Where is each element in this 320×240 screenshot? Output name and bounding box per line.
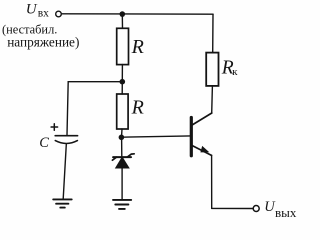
svg-text:R: R — [131, 97, 144, 119]
capacitor plus sign — [51, 124, 58, 130]
wire R1 to node B — [121, 65, 123, 82]
wire zener to ground — [121, 168, 123, 200]
resistor R2 — [117, 94, 128, 129]
wire emitter down — [211, 155, 213, 208]
transistor VT emitter arrowhead — [200, 146, 209, 153]
label U_vyx — [264, 199, 297, 220]
svg-text:R: R — [131, 36, 144, 58]
wire top bus corner down to Rk — [212, 14, 214, 52]
label U_vx — [26, 2, 49, 20]
svg-text:напряжение): напряжение) — [7, 34, 79, 49]
svg-text:U: U — [26, 2, 38, 18]
node C junction dot — [119, 135, 125, 141]
wire node B to R2 — [121, 82, 123, 94]
svg-text:C: C — [39, 135, 49, 151]
terminal input U_vx — [56, 11, 62, 17]
ground under capacitor — [53, 199, 71, 207]
wire node A to R1 — [121, 14, 123, 28]
svg-text:к: к — [232, 66, 238, 78]
ground under zener — [113, 200, 131, 209]
wire Rk to collector — [211, 86, 214, 113]
node A junction dot — [120, 11, 126, 17]
transistor VT base bar — [190, 118, 193, 156]
transistor VT emitter lead — [192, 146, 211, 156]
svg-text:вх: вх — [38, 8, 49, 20]
resistor Rk — [206, 53, 218, 86]
zener right bent tip — [128, 154, 135, 157]
node B junction dot — [120, 79, 126, 85]
transistor VT collector lead — [192, 113, 212, 125]
resistor R1 — [117, 28, 129, 64]
capacitor C bottom curved plate — [55, 141, 77, 144]
wire top bus — [62, 13, 213, 15]
svg-text:вых: вых — [275, 205, 297, 220]
terminal output U_vyx — [253, 206, 259, 212]
wire node C to zener — [121, 137, 123, 156]
wire R2 to node C — [121, 129, 124, 137]
zener anode triangle — [115, 156, 130, 168]
label Rk value — [221, 57, 238, 78]
wire capacitor to ground — [63, 144, 66, 199]
wire node C to transistor base — [121, 136, 190, 137]
capacitor C top plate — [55, 135, 77, 137]
zener diode VD cathode bar — [113, 156, 131, 158]
wire node B left to capacitor branch — [67, 82, 122, 135]
wire bottom to output — [212, 207, 253, 209]
zener left bent tip — [112, 157, 116, 160]
